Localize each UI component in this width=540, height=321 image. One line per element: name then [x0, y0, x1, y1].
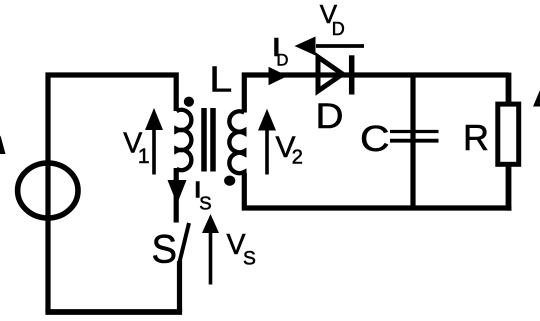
capacitor C bottom plate — [390, 139, 439, 143]
wire: right rail bottom segment — [506, 164, 512, 211]
switch S blade — [180, 223, 190, 262]
wire: secondary top (coil to diode anode) — [244, 75, 508, 113]
svg-text:2: 2 — [292, 147, 303, 169]
primary polarity dot — [184, 97, 194, 107]
capacitor C top plate — [390, 130, 439, 133]
clipped arrow at left edge — [0, 136, 6, 155]
wire: capacitor branch — [410, 75, 415, 208]
svg-text:D: D — [316, 97, 344, 136]
diode D cathode bar — [349, 55, 355, 94]
wire: primary coil bottom to switch top contact — [174, 168, 179, 223]
secondary polarity dot — [224, 176, 235, 186]
svg-text:D: D — [332, 19, 345, 39]
diode D triangle (hollow) — [318, 57, 343, 91]
wire: right rail top segment — [506, 73, 512, 106]
arrow ID (diode current, right, on wire) — [269, 67, 288, 85]
svg-text:S: S — [152, 228, 178, 272]
svg-text:1: 1 — [138, 145, 150, 168]
arrow VD (diode voltage, left) — [316, 44, 364, 48]
wire: switch lower post — [177, 261, 182, 312]
arrow IS (switch current, down, on wire) — [168, 180, 187, 204]
wire: primary loop top rail and left rail (source branch) — [48, 75, 176, 312]
svg-text:R: R — [463, 117, 489, 158]
arrow VS (switch voltage, up) — [209, 231, 213, 285]
wire: bottom rail of primary loop — [45, 309, 182, 315]
transformer core — [204, 108, 213, 172]
svg-text:S: S — [243, 249, 256, 270]
svg-text:C: C — [360, 118, 390, 159]
svg-text:D: D — [277, 52, 289, 70]
arrow V1 (primary voltage, up) — [152, 128, 156, 175]
svg-text:S: S — [199, 193, 211, 214]
arrow V2 (secondary voltage, up) — [265, 129, 269, 175]
transformer secondary winding — [229, 111, 244, 173]
resistor R body — [498, 104, 519, 164]
clipped arrow at right edge — [533, 89, 540, 107]
svg-text:L: L — [209, 58, 232, 99]
voltage source (AC/DC source ellipse) — [18, 163, 78, 218]
wire: secondary bottom rail — [244, 173, 511, 208]
transformer primary winding — [176, 110, 191, 170]
